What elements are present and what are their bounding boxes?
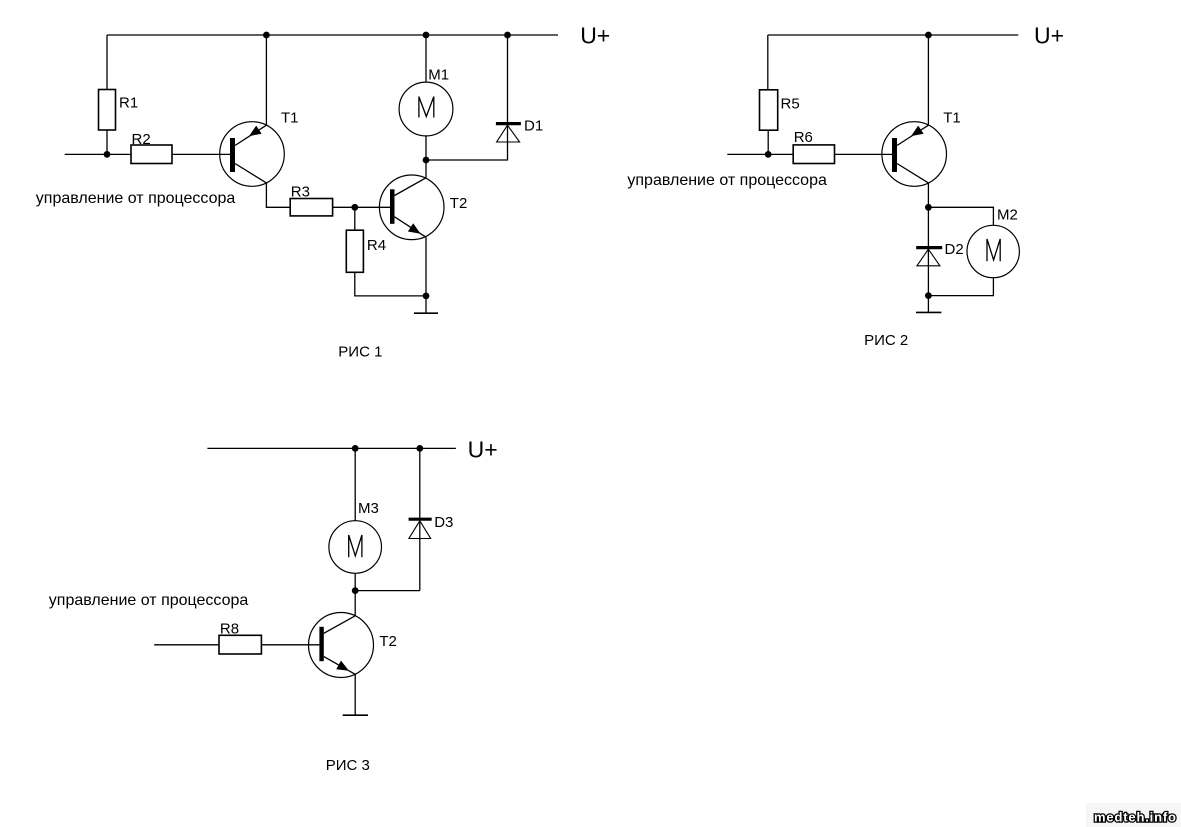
svg-text:M3: M3: [358, 500, 379, 517]
svg-text:medteh.info: medteh.info: [1094, 810, 1176, 825]
svg-text:R3: R3: [291, 183, 310, 200]
svg-text:управление от процессора: управление от процессора: [36, 190, 236, 207]
svg-text:R4: R4: [367, 237, 386, 254]
svg-text:D2: D2: [945, 241, 964, 258]
svg-text:T1: T1: [281, 109, 299, 126]
svg-text:управление от процессора: управление от процессора: [49, 592, 249, 609]
svg-text:U+: U+: [468, 436, 498, 462]
svg-text:R5: R5: [781, 96, 800, 113]
svg-text:T2: T2: [379, 633, 397, 650]
svg-text:M1: M1: [428, 67, 449, 84]
svg-text:R8: R8: [220, 620, 239, 637]
svg-text:R2: R2: [132, 131, 151, 148]
svg-text:R1: R1: [119, 95, 138, 112]
svg-text:M2: M2: [997, 207, 1018, 224]
svg-text:R6: R6: [794, 129, 813, 146]
svg-text:РИС 1: РИС 1: [338, 344, 382, 361]
svg-text:РИС 2: РИС 2: [864, 332, 908, 349]
svg-text:D3: D3: [434, 514, 453, 531]
svg-text:U+: U+: [580, 23, 610, 49]
svg-text:U+: U+: [1034, 23, 1064, 49]
svg-text:управление от процессора: управление от процессора: [627, 172, 827, 189]
svg-text:T1: T1: [943, 109, 961, 126]
svg-text:РИС 3: РИС 3: [326, 757, 370, 774]
svg-text:D1: D1: [524, 117, 543, 134]
svg-text:T2: T2: [450, 195, 468, 212]
